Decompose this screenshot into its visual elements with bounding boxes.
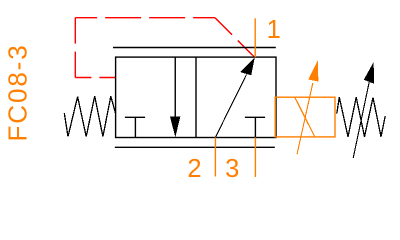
top rail	[113, 47, 276, 49]
orifice X stroke	[295, 97, 315, 137]
orifice box	[275, 97, 335, 137]
spring adjust arrow head	[364, 62, 374, 84]
orifice adjust arrow shaft	[297, 83, 313, 154]
pilot line (red dashed) top horizontal	[75, 17, 215, 19]
spring adjust arrow shaft	[353, 82, 369, 158]
orifice adjust arrow head	[308, 60, 318, 81]
diagonal flow arrow head	[240, 57, 255, 75]
blocked port T (left square)	[125, 117, 145, 137]
down arrow (left square) shaft	[174, 57, 176, 117]
port 2 line	[214, 137, 216, 176]
pilot line (red dashed) diagonal	[215, 18, 255, 58]
position divider	[195, 57, 197, 137]
blocked port T (right square)	[245, 117, 265, 137]
pilot line (red dashed) left vertical	[74, 18, 76, 78]
svg-text:2: 2	[187, 155, 201, 183]
valve body	[116, 57, 276, 137]
left spring	[64, 96, 115, 137]
diagonal flow arrow (right square) shaft	[215, 75, 246, 138]
pilot line (red dashed) bottom horizontal	[75, 77, 115, 79]
svg-text:1: 1	[267, 16, 281, 44]
port 3 line	[254, 137, 256, 177]
down arrow head	[170, 117, 180, 138]
right spring	[337, 97, 385, 137]
port 1 line	[254, 18, 256, 57]
svg-text:3: 3	[225, 155, 239, 183]
svg-text:FC08-3: FC08-3	[3, 43, 33, 141]
bottom rail	[115, 146, 275, 148]
